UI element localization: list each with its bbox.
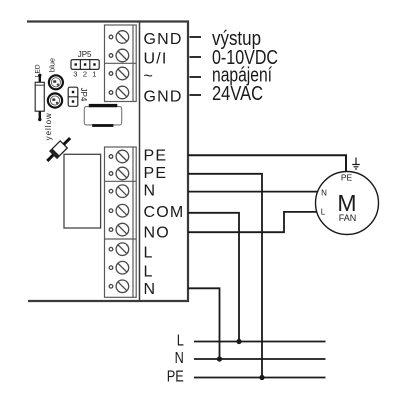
svg-text:L: L xyxy=(144,264,154,281)
svg-text:N: N xyxy=(144,281,157,298)
terminal block TB1 (top, 4 screws) xyxy=(105,25,137,102)
svg-text:blue: blue xyxy=(47,58,56,72)
svg-text:~: ~ xyxy=(144,68,155,85)
bus line L xyxy=(194,341,326,343)
terminal labels top group xyxy=(144,31,183,106)
svg-text:N: N xyxy=(144,183,157,200)
svg-text:JP4: JP4 xyxy=(79,88,88,102)
bus line N xyxy=(194,358,326,360)
svg-text:U/I: U/I xyxy=(144,51,168,68)
terminal labels bottom group xyxy=(144,147,185,298)
svg-text:L: L xyxy=(321,207,326,216)
jumper JP4 xyxy=(68,87,78,106)
svg-text:1: 1 xyxy=(92,70,96,79)
diode D3 (diagonal axial component) xyxy=(44,135,74,165)
svg-text:N: N xyxy=(321,188,327,197)
wire PE1 to motor ground xyxy=(188,155,346,171)
external labels: vystup / 0-10VDC / napajeni / 24VAC xyxy=(212,28,278,105)
svg-text:PE: PE xyxy=(144,147,168,164)
screws TB2 xyxy=(109,150,129,292)
svg-text:PE: PE xyxy=(167,368,184,385)
wire N to motor xyxy=(188,191,317,193)
terminal block TB2 (bottom, 8 screws) xyxy=(105,147,137,297)
capacitor C1 (vertical axial body) xyxy=(39,75,41,82)
svg-text:PE: PE xyxy=(144,165,168,182)
relay K2 (tall rectangle) xyxy=(64,154,101,228)
svg-text:L: L xyxy=(177,332,184,349)
svg-text:GND: GND xyxy=(144,31,183,48)
junction dots xyxy=(236,339,241,344)
svg-text:FAN: FAN xyxy=(339,213,357,223)
svg-text:yellow: yellow xyxy=(44,112,53,140)
svg-text:24VAC: 24VAC xyxy=(212,83,263,105)
controller board outline xyxy=(27,22,188,302)
svg-text:2: 2 xyxy=(83,70,87,79)
wire PE2 down to PE bus xyxy=(188,174,262,378)
svg-text:N: N xyxy=(175,350,184,367)
svg-text:GND: GND xyxy=(144,89,183,106)
ticks to external labels xyxy=(190,37,202,95)
wire NO to motor L xyxy=(188,212,317,232)
terminal label column left edge xyxy=(139,22,141,302)
wire N-bottom down to N bus xyxy=(188,288,220,359)
svg-text:L: L xyxy=(144,245,154,262)
svg-text:PE: PE xyxy=(341,173,353,183)
wire COM down to L bus xyxy=(188,213,239,342)
svg-text:COM: COM xyxy=(144,204,185,221)
bus line PE xyxy=(194,377,326,379)
svg-text:NO: NO xyxy=(144,224,170,241)
bus labels xyxy=(167,332,184,385)
LED D2 yellow xyxy=(48,93,62,107)
LED D1 blue xyxy=(49,75,63,89)
svg-text:JP5: JP5 xyxy=(78,50,92,59)
motor M1 (FAN) xyxy=(316,172,379,235)
svg-text:3: 3 xyxy=(73,70,77,79)
relay K1 (rounded box with bars) xyxy=(84,107,121,125)
screws TB1 xyxy=(109,31,129,99)
ground symbol xyxy=(352,158,360,170)
